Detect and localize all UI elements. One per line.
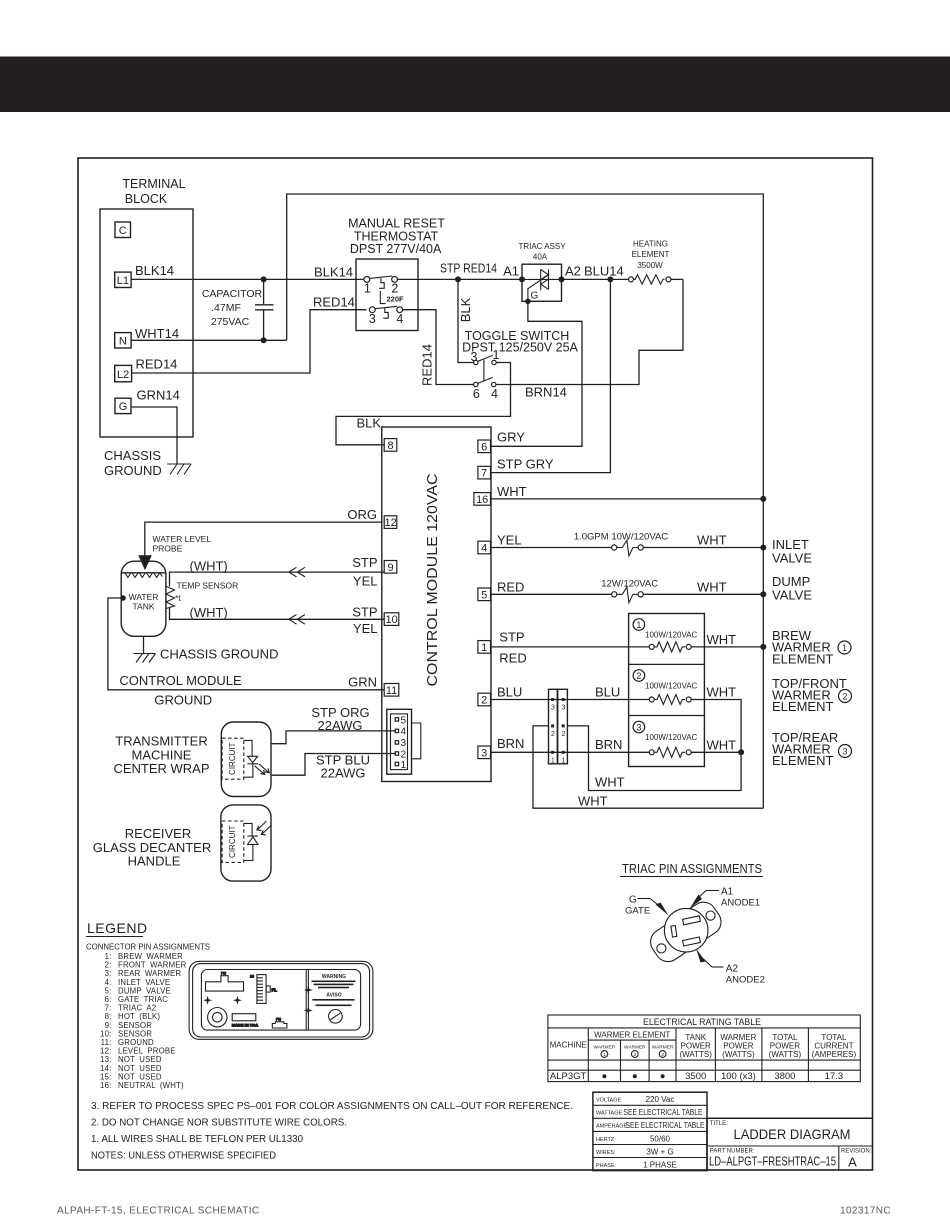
svg-text:17.3: 17.3: [825, 1071, 844, 1082]
connector J2 pins 2: [551, 724, 566, 738]
svg-text:WARMER ELEMENT: WARMER ELEMENT: [594, 1031, 670, 1040]
svg-text:GRY: GRY: [497, 430, 525, 445]
svg-text:275VAC: 275VAC: [211, 316, 250, 328]
chassis ground symbol (tank): [134, 654, 156, 663]
svg-text:ORG: ORG: [347, 507, 377, 522]
warmer 2 circled number: [633, 670, 645, 682]
label plate fuse shape: [272, 1018, 287, 1029]
svg-text:ELECTRICAL RATING TABLE: ELECTRICAL RATING TABLE: [643, 1017, 761, 1027]
svg-text:RECEIVER: RECEIVER: [125, 826, 191, 841]
spec table rows: [596, 1095, 705, 1169]
node tank ground tap: [120, 595, 126, 601]
warmer 3 circled number: [633, 721, 645, 733]
svg-text:HEATING: HEATING: [633, 240, 668, 249]
svg-text:1: 1: [636, 620, 641, 630]
triac package flange: [646, 897, 726, 966]
wire STP BLU transmitter to J1 pin2: [271, 753, 396, 781]
module pin 3: [478, 746, 491, 759]
svg-text:PHASE:: PHASE:: [596, 1163, 617, 1169]
transmitter module: [221, 722, 271, 797]
warmer 1 circled number: [633, 619, 645, 631]
connector J1 pin 2: [395, 749, 406, 760]
control module U1: [382, 427, 491, 782]
svg-text:SEE ELECTRICAL TABLE: SEE ELECTRICAL TABLE: [624, 1108, 703, 1117]
triac gate label G: [531, 291, 539, 302]
wire RED14 thermostat pin4 to toggle pin6: [403, 310, 474, 386]
svg-text:LEGEND: LEGEND: [87, 920, 148, 936]
svg-text:TRIAC ASSY: TRIAC ASSY: [518, 242, 566, 251]
svg-text:3: 3: [636, 722, 641, 732]
thermostat element lower: [383, 308, 388, 318]
label DUMP VALVE: [772, 574, 812, 603]
svg-text:YEL: YEL: [353, 621, 378, 636]
svg-text:PROBE: PROBE: [153, 544, 183, 554]
svg-text:10: 10: [250, 975, 254, 979]
label plate fill gauge: [250, 975, 277, 1004]
node inlet bus: [760, 545, 766, 551]
label BREW WARMER ELEMENT: [772, 628, 851, 667]
triac package can: [664, 908, 708, 952]
svg-text:3: 3: [561, 705, 565, 712]
svg-text:WHT: WHT: [595, 774, 625, 789]
svg-text:WATER: WATER: [129, 592, 159, 602]
thermostat bar 3-4: [375, 306, 397, 308]
svg-text:CHASSIS: CHASSIS: [104, 448, 161, 463]
svg-text:1: 1: [842, 643, 847, 653]
module pin 2: [478, 693, 491, 706]
terminal N: [115, 333, 131, 348]
module pin 12: [384, 516, 397, 529]
warmer resistor R3 top/front: [649, 695, 691, 705]
chassis ground symbol (terminal block): [167, 464, 191, 475]
terminal G: [115, 398, 131, 413]
svg-text:(WATTS): (WATTS): [679, 1050, 712, 1059]
toggle bars and link: [478, 355, 493, 383]
svg-text:WHT: WHT: [497, 484, 527, 499]
module pin 9: [384, 561, 397, 574]
svg-text:3. REFER TO PROCESS SPEC PS–00: 3. REFER TO PROCESS SPEC PS–001 FOR COLO…: [91, 1100, 573, 1112]
svg-text:WIRES:: WIRES:: [596, 1150, 616, 1156]
svg-text:BLK: BLK: [357, 416, 382, 431]
receiver module: [221, 805, 271, 881]
wire BLU pin2 through connector to warmer2: [491, 684, 649, 699]
svg-text:LD–ALPGT–FRESHTRAC–15: LD–ALPGT–FRESHTRAC–15: [709, 1155, 836, 1169]
svg-text:CONTROL MODULE: CONTROL MODULE: [119, 673, 242, 688]
svg-text:WARMER: WARMER: [624, 1045, 646, 1051]
svg-text:A1: A1: [503, 264, 519, 279]
module pin 10: [384, 613, 399, 626]
module pin 5: [478, 588, 491, 601]
svg-text:HERTZ:: HERTZ:: [596, 1137, 616, 1143]
svg-text:(AMPERES): (AMPERES): [812, 1050, 857, 1059]
thermostat element upper: [379, 278, 385, 304]
title block: [707, 1118, 873, 1170]
warmer 1 rating: [645, 631, 698, 640]
label transmitter: [113, 734, 209, 777]
svg-text:16: 16: [476, 494, 488, 506]
svg-text:100W/120VAC: 100W/120VAC: [645, 631, 698, 640]
wire BLK junction to toggle pin3: [458, 279, 473, 362]
svg-text:CONTROL MODULE 120VAC: CONTROL MODULE 120VAC: [424, 473, 441, 686]
wire WHT connector pin2 to bus bottom: [533, 726, 763, 809]
svg-text:FL: FL: [272, 988, 278, 993]
label plate logo: [329, 1010, 343, 1024]
svg-text:3: 3: [842, 746, 847, 756]
toggle switch S2: [462, 329, 578, 355]
thermostat contact 4: [396, 307, 403, 326]
label TOP/FRONT WARMER ELEMENT: [772, 676, 852, 714]
label chassis ground: [104, 448, 162, 478]
module pin 6: [478, 440, 491, 453]
connector J2 pins 3: [551, 698, 566, 712]
svg-text:AMPERAGE:: AMPERAGE:: [596, 1124, 629, 1130]
wire WHT warmer1 to bus: [691, 632, 763, 647]
node triac gate: [525, 299, 531, 305]
label chassis ground mid: [160, 647, 278, 662]
transmitter LED D1: [244, 740, 269, 777]
svg-text:RED14: RED14: [313, 294, 355, 309]
svg-text:3: 3: [551, 705, 555, 712]
wire gate to module pin6 GRY: [491, 301, 582, 446]
svg-text:2: 2: [633, 1052, 636, 1058]
legend connector pin assignments: [86, 942, 210, 952]
svg-text:YEL: YEL: [497, 533, 522, 548]
svg-text:G: G: [531, 291, 539, 302]
wire toggle pin1 to module pin8 BLK: [336, 363, 511, 445]
svg-text:MACHINE: MACHINE: [550, 1040, 587, 1050]
svg-text:L1: L1: [117, 275, 129, 287]
legend pin list: [100, 952, 187, 1090]
toggle contact 4: [491, 382, 498, 401]
svg-text:3: 3: [661, 1052, 664, 1058]
svg-text:1: 1: [364, 281, 371, 295]
rating table title: [643, 1017, 761, 1027]
leader A2 ANODE2: [696, 949, 765, 986]
svg-text:LADDER DIAGRAM: LADDER DIAGRAM: [734, 1126, 851, 1142]
wire STP YEL pin9 to sensor: [170, 555, 385, 589]
triac package pin G: [671, 926, 677, 938]
connector J1 pin 1: [395, 760, 406, 771]
svg-text:1: 1: [493, 348, 500, 362]
svg-text:4: 4: [481, 543, 487, 555]
svg-text:SEE ELECTRICAL TABLE: SEE ELECTRICAL TABLE: [626, 1121, 705, 1130]
svg-text:CIRCUIT: CIRCUIT: [228, 825, 237, 858]
svg-text:A: A: [848, 1155, 857, 1170]
terminal L1: [115, 272, 131, 287]
svg-text:2. DO NOT CHANGE NOR SUBSTITUT: 2. DO NOT CHANGE NOR SUBSTITUTE WIRE COL…: [91, 1117, 347, 1129]
wire WHT pin16 to bus: [491, 484, 763, 499]
wire STP RED pin1 to warmer1: [491, 630, 649, 666]
svg-text:VOLTAGE:: VOLTAGE:: [596, 1098, 623, 1104]
wire STP RED14 thermostat to triac A1: [398, 261, 523, 280]
svg-text:1: 1: [603, 1052, 606, 1058]
wire STP ORG transmitter to J1 pin4: [271, 705, 396, 744]
svg-text:11: 11: [386, 685, 397, 697]
svg-text:C: C: [119, 225, 127, 237]
svg-text:2: 2: [551, 731, 555, 738]
thermostat bar 1-2: [370, 276, 393, 278]
svg-text:BRN14: BRN14: [525, 385, 567, 400]
wire BLU14 A2 to heating element: [562, 264, 632, 280]
receiver circuit box: [222, 821, 244, 863]
svg-text:N: N: [119, 335, 127, 347]
svg-text:WATER LEVEL: WATER LEVEL: [153, 534, 212, 544]
svg-text:RED: RED: [497, 579, 524, 594]
terminal C: [115, 222, 131, 238]
triac package hole lower-left: [657, 944, 666, 953]
node junction capacitor top: [261, 276, 267, 282]
svg-text:2: 2: [636, 671, 641, 681]
wire STP GRY junction to module pin7: [491, 279, 610, 472]
svg-text:2: 2: [391, 281, 398, 295]
svg-text:TRANSMITTER: TRANSMITTER: [115, 734, 207, 749]
drawing frame: [78, 158, 873, 1170]
svg-text:2: 2: [481, 695, 487, 707]
svg-text:STP: STP: [499, 630, 524, 645]
wire GRN pin11 to tank: [108, 598, 384, 690]
module pin 11: [384, 684, 399, 697]
node triac A1: [503, 264, 525, 283]
inlet valve V1 1.0GPM: [574, 532, 763, 556]
svg-text:6: 6: [481, 441, 487, 453]
warmer element block: [629, 614, 705, 767]
node junction capacitor bottom: [261, 337, 267, 343]
warmer 2 rating: [645, 682, 698, 691]
svg-text:MADE IN USA: MADE IN USA: [232, 1023, 259, 1028]
svg-text:WARNING: WARNING: [322, 974, 346, 980]
wire RED pin5 to dump valve: [491, 579, 612, 594]
warmer resistor R4 top/rear: [649, 747, 691, 757]
notes: [91, 1100, 573, 1162]
thermostat setpoint 220F: [387, 295, 405, 304]
svg-text:16:: 16:: [100, 1081, 111, 1090]
svg-text:.47MF: .47MF: [211, 302, 241, 314]
svg-text:3500: 3500: [685, 1071, 706, 1082]
svg-text:STP: STP: [352, 555, 377, 570]
svg-text:WHT14: WHT14: [135, 326, 179, 341]
svg-text:BLK14: BLK14: [135, 263, 174, 278]
wire BLK14 L1 to thermostat: [131, 263, 367, 279]
triac symbol: [522, 269, 562, 301]
svg-text:3: 3: [481, 747, 487, 759]
svg-text:2: 2: [561, 731, 565, 738]
transmitter circuit box: [222, 738, 244, 779]
svg-text:100W/120VAC: 100W/120VAC: [645, 733, 698, 742]
svg-text:WATTAGE:: WATTAGE:: [596, 1111, 624, 1117]
svg-text:BRN: BRN: [497, 736, 524, 751]
label TOP/REAR WARMER ELEMENT: [772, 730, 852, 768]
triac pin assignments title: [620, 861, 763, 877]
svg-text:2: 2: [401, 749, 407, 760]
svg-text:ALPAH-FT-15, ELECTRICAL SCHEMA: ALPAH-FT-15, ELECTRICAL SCHEMATIC: [57, 1206, 260, 1217]
node dump bus: [760, 591, 766, 597]
svg-text:PN: PN: [221, 972, 226, 976]
svg-text:VALVE: VALVE: [772, 551, 812, 566]
svg-text:RED: RED: [499, 651, 526, 666]
svg-text:G: G: [629, 895, 637, 906]
module pin 4: [478, 541, 491, 554]
connector J2 pins 1: [551, 751, 566, 765]
svg-text:WHT: WHT: [707, 737, 737, 752]
svg-text:12: 12: [384, 517, 396, 529]
svg-text:10: 10: [385, 614, 397, 626]
svg-text:A2: A2: [565, 264, 581, 279]
header bar: [0, 57, 950, 113]
svg-text:GROUND: GROUND: [104, 463, 162, 478]
svg-text:ELEMENT: ELEMENT: [772, 699, 833, 714]
svg-text:3: 3: [401, 738, 407, 749]
heating element R1 3500W: [629, 240, 684, 285]
terminal block TB1: [100, 177, 193, 437]
svg-text:WHT: WHT: [578, 794, 608, 809]
toggle contact 1: [492, 348, 500, 365]
svg-text:A2: A2: [726, 964, 739, 975]
svg-text:1 PHASE: 1 PHASE: [643, 1160, 677, 1169]
wire WHT warmer2 return: [567, 685, 741, 791]
svg-text:VALVE: VALVE: [772, 588, 812, 603]
svg-text:1: 1: [561, 757, 565, 764]
svg-text:GRN: GRN: [348, 675, 377, 690]
toggle contact 3: [471, 350, 478, 365]
svg-text:1: 1: [481, 642, 487, 654]
dump valve V2 12W: [601, 579, 763, 603]
label INLET VALVE: [772, 537, 812, 566]
svg-text:GRN14: GRN14: [137, 387, 180, 402]
triac package hole upper-right: [706, 911, 715, 920]
svg-text:TRIAC PIN ASSIGNMENTS: TRIAC PIN ASSIGNMENTS: [622, 861, 762, 876]
svg-text:RED14: RED14: [419, 344, 434, 386]
triac package pin A2: [683, 937, 701, 946]
svg-text:BLK14: BLK14: [314, 264, 353, 279]
label plate warning text: [312, 974, 356, 1006]
svg-text:WARMER: WARMER: [594, 1045, 616, 1051]
svg-text:3: 3: [369, 312, 376, 326]
svg-text:4: 4: [401, 727, 407, 738]
svg-text:WHT: WHT: [697, 533, 727, 548]
node warmer1 bus: [760, 644, 766, 650]
wire WHT14 N to bus: [131, 326, 287, 341]
svg-text:1.0GPM 10W/120VAC: 1.0GPM 10W/120VAC: [574, 532, 668, 543]
svg-text:G: G: [119, 401, 128, 413]
node junction BLU14 / STP GRY: [607, 276, 613, 282]
svg-text:(WATTS): (WATTS): [722, 1050, 755, 1059]
svg-text:ALP3GT: ALP3GT: [550, 1071, 587, 1082]
svg-text:WHT: WHT: [707, 685, 737, 700]
wire GRN14 G to chassis ground: [131, 387, 180, 464]
svg-text:3500W: 3500W: [637, 261, 663, 270]
svg-text:220 Vac: 220 Vac: [646, 1095, 675, 1104]
label plate knob: [208, 1008, 227, 1027]
svg-text:TITLE:: TITLE:: [710, 1121, 728, 1127]
water level probe: [138, 534, 211, 570]
svg-text:22AWG: 22AWG: [320, 766, 365, 781]
thermostat S1 manual reset: [348, 217, 445, 331]
svg-text:CENTER WRAP: CENTER WRAP: [113, 761, 209, 776]
svg-text:(WATTS): (WATTS): [769, 1050, 802, 1059]
wire ORG pin12 to water level probe: [145, 507, 382, 556]
svg-text:NEUTRAL (WHT): NEUTRAL (WHT): [118, 1081, 184, 1090]
svg-text:BLU14: BLU14: [584, 264, 624, 279]
tank chassis ground wire: [143, 636, 145, 653]
connector J1 pin 3: [395, 738, 406, 749]
title block texts: [709, 1121, 872, 1170]
electrical rating table: [548, 1015, 860, 1082]
svg-text:BLU: BLU: [497, 684, 522, 699]
svg-text:12W/120VAC: 12W/120VAC: [601, 579, 658, 590]
toggle contact 6: [473, 382, 480, 401]
warmer 3 rating: [645, 733, 698, 742]
legend title: [86, 920, 148, 937]
svg-text:40A: 40A: [533, 253, 548, 262]
svg-text:7: 7: [481, 468, 487, 480]
connector J2 plug: [549, 689, 558, 764]
node triac A2: [559, 264, 581, 283]
svg-text:5: 5: [481, 589, 487, 601]
connector J1 pin 5: [395, 715, 406, 726]
svg-text:102317NC: 102317NC: [840, 1206, 891, 1217]
rating table headers: [550, 1031, 857, 1059]
warning label plate: [189, 961, 373, 1039]
svg-text:3W + G: 3W + G: [646, 1147, 673, 1156]
triac assy 40A: [518, 242, 566, 301]
rating table data row: [550, 1071, 843, 1082]
triac package pin A1: [683, 916, 701, 925]
leader A1 ANODE1: [690, 887, 760, 909]
svg-text:5: 5: [401, 715, 407, 726]
svg-text:WARMER: WARMER: [652, 1045, 674, 1051]
connector J1 pin 4: [395, 727, 406, 738]
leader G GATE: [625, 895, 669, 917]
capacitor C1 .47MF: [202, 279, 274, 340]
label plate cross marks: [203, 986, 313, 1016]
svg-text:BLOCK: BLOCK: [125, 192, 168, 206]
module pin 7: [478, 466, 491, 479]
connector J1 5-pin: [387, 709, 421, 774]
label GRY pin6: [497, 430, 525, 445]
connector J2 receptacle: [558, 689, 568, 764]
twisted pair chevrons pin10: [289, 615, 305, 625]
label plate lid shape: [206, 972, 244, 992]
svg-text:STP RED14: STP RED14: [440, 261, 497, 276]
svg-text:2: 2: [842, 691, 847, 701]
svg-text:6: 6: [473, 387, 480, 401]
label receiver: [93, 826, 211, 869]
svg-text:BLU: BLU: [595, 684, 620, 699]
svg-text:4: 4: [491, 387, 498, 401]
svg-text:3800: 3800: [774, 1071, 795, 1082]
svg-text:*t: *t: [175, 593, 181, 603]
footer: [57, 1206, 891, 1217]
svg-text:ELEMENT: ELEMENT: [772, 652, 833, 667]
svg-text:CAPACITOR: CAPACITOR: [202, 288, 263, 300]
svg-text:ANODE2: ANODE2: [726, 975, 765, 986]
svg-text:100W/120VAC: 100W/120VAC: [645, 682, 698, 691]
svg-text:220F: 220F: [387, 295, 405, 304]
svg-text:GROUND: GROUND: [154, 693, 212, 708]
wire BRN14 toggle pin4 to heating element return: [496, 279, 683, 399]
receiver photodiode D2: [244, 821, 271, 860]
water tank: [121, 561, 166, 636]
module pin 16: [474, 493, 491, 506]
svg-text:DPST 277V/40A: DPST 277V/40A: [350, 242, 442, 256]
module pin 8: [384, 439, 397, 452]
module pin 1: [478, 641, 491, 654]
svg-text:(WHT): (WHT): [190, 605, 228, 620]
wire WHT warmer3 to return: [691, 737, 741, 752]
label STP GRY pin7: [497, 457, 554, 472]
thermostat contact 1: [364, 277, 371, 296]
svg-text:CIRCUIT: CIRCUIT: [228, 742, 237, 775]
